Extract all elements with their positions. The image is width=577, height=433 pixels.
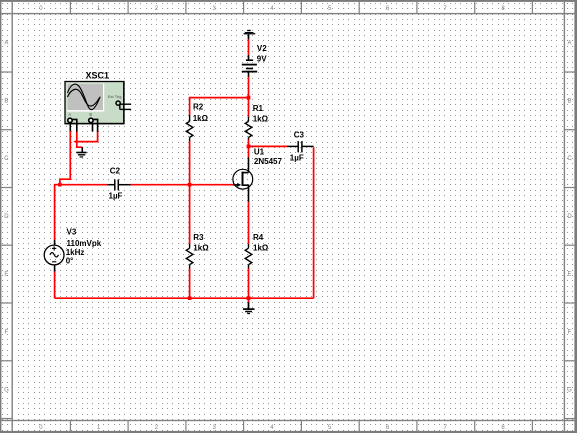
svg-text:R1: R1 <box>253 104 264 113</box>
wire V3 bottom to rail <box>54 271 56 298</box>
svg-text:V2: V2 <box>257 44 267 53</box>
power terminal of V2 (plus bar) <box>244 30 256 39</box>
node R4/ground on rail <box>247 296 251 300</box>
instrument XSC1 box <box>65 82 131 132</box>
capacitor C2 <box>107 179 130 190</box>
source V3 (AC) <box>44 240 64 271</box>
pin stubs below box <box>70 119 97 131</box>
svg-text:E: E <box>567 272 571 278</box>
ground (scope) <box>76 147 86 157</box>
wire battery to R1/R2 junction <box>248 76 250 97</box>
wire V2 plus terminal to battery <box>248 39 250 55</box>
svg-text:G: G <box>4 387 9 393</box>
svg-text:XSC1: XSC1 <box>86 70 110 80</box>
wire junction to R2 top corner <box>190 98 249 116</box>
svg-text:C2: C2 <box>110 167 121 176</box>
node drain/C3 <box>247 145 251 149</box>
battery V2 <box>242 55 257 77</box>
svg-text:Ext Trig: Ext Trig <box>108 94 122 99</box>
svg-text:1kΩ: 1kΩ <box>193 244 209 253</box>
svg-text:G: G <box>567 387 572 393</box>
wire gate line (input node) <box>55 185 108 240</box>
arrow head on B- wire <box>73 140 77 144</box>
wire C2 right to JFET gate <box>130 184 233 186</box>
svg-text:1µF: 1µF <box>109 192 123 201</box>
screen <box>67 83 104 111</box>
node V2/R1/R2 <box>247 96 251 100</box>
svg-text:B: B <box>567 99 571 105</box>
capacitor C3 <box>287 141 314 152</box>
gate arrow <box>237 183 241 187</box>
svg-text:C: C <box>4 156 9 162</box>
svg-text:1kΩ: 1kΩ <box>253 115 269 124</box>
wire scope B- down and left <box>77 131 98 141</box>
svg-text:C3: C3 <box>294 131 305 140</box>
sine trace A <box>68 84 101 110</box>
resistor R4 <box>245 244 252 269</box>
svg-text:1kΩ: 1kΩ <box>253 244 269 253</box>
svg-text:D: D <box>4 214 9 220</box>
terminal Ext Trig <box>116 101 120 105</box>
svg-text:R2: R2 <box>193 103 204 112</box>
svg-text:A: A <box>68 112 71 117</box>
svg-text:9V: 9V <box>257 54 267 63</box>
pin A- L stub <box>72 119 77 131</box>
svg-text:0°: 0° <box>66 256 74 265</box>
svg-text:110mVpk: 110mVpk <box>67 239 102 248</box>
outer window border <box>0 0 577 2</box>
svg-text:R4: R4 <box>253 233 264 242</box>
node R3 on rail <box>188 296 192 300</box>
svg-text:A: A <box>4 41 8 47</box>
svg-text:R3: R3 <box>193 233 204 242</box>
svg-text:B: B <box>89 112 92 117</box>
wire scope A- to ground <box>77 131 83 147</box>
terminal B <box>89 118 93 122</box>
sine squiggle <box>50 253 59 257</box>
resistor R3 <box>186 244 193 269</box>
svg-text:A: A <box>567 41 571 47</box>
svg-text:B: B <box>4 99 8 105</box>
transistor U1 JFET <box>233 157 253 202</box>
svg-text:F: F <box>568 330 572 336</box>
wire JFET source to R4 <box>248 202 250 245</box>
node gate/R2-R3 <box>188 183 192 187</box>
sine trace B <box>68 89 100 106</box>
ruler band lines <box>12 1 13 432</box>
wire R4 bottom to rail <box>248 268 250 298</box>
wire R2 bottom to R3 top <box>189 141 191 244</box>
terminal A <box>68 118 72 122</box>
wire R1 top <box>248 98 250 117</box>
wire R3 bottom to ground rail <box>189 268 191 298</box>
svg-text:U1: U1 <box>254 147 265 156</box>
wire bottom ground rail <box>55 297 314 299</box>
resistor R1 <box>245 117 252 140</box>
wire scope A+ down jog to input node <box>60 131 70 186</box>
pin A+ <box>69 123 71 131</box>
pin B- L stub <box>93 119 98 131</box>
wire drain junction to JFET drain <box>248 146 250 157</box>
node scope A jog on input <box>58 183 62 187</box>
resistor R2 <box>186 115 193 141</box>
svg-text:F: F <box>5 330 9 336</box>
pin B+ stub <box>92 123 94 132</box>
svg-text:C: C <box>567 156 572 162</box>
svg-text:1kΩ: 1kΩ <box>193 114 209 123</box>
ground (main, below R4 rail) <box>243 302 255 313</box>
plus sign <box>52 247 56 249</box>
wire rail to ground symbol <box>248 298 250 303</box>
svg-text:2N5457: 2N5457 <box>254 157 283 166</box>
svg-text:E: E <box>4 272 8 278</box>
svg-text:1µF: 1µF <box>290 153 304 162</box>
minus sign <box>52 261 56 263</box>
svg-text:D: D <box>567 214 572 220</box>
wire drain junction to C3 <box>249 145 288 147</box>
wire C3 right to output rail down <box>313 147 315 298</box>
svg-text:V3: V3 <box>67 227 77 236</box>
wire R1 bottom to drain junction <box>248 139 250 146</box>
junction dots <box>58 96 250 300</box>
